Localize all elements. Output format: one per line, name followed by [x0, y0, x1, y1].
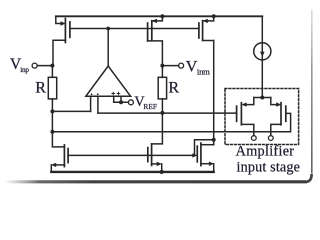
wire VREF	[114, 101, 129, 103]
junction dot M6 gate wrap	[212, 138, 216, 142]
wire bus2 to pair right gate	[52, 113, 290, 131]
junction dot VREF	[119, 100, 123, 104]
transistor M6 (bottom-right NMOS, diode-connected)	[195, 140, 215, 172]
svg-text:inp: inp	[20, 66, 29, 74]
svg-text:input stage: input stage	[237, 159, 301, 175]
terminal Vinp	[32, 63, 37, 68]
gate bus wire (M1-M2-M3 gates)	[70, 28, 199, 30]
junction dot M5 source/rail	[160, 170, 164, 174]
transistor M3 (top-right PMOS)	[199, 16, 214, 40]
transistor M5 (bottom-middle NMOS)	[148, 144, 162, 172]
wire bus1 right segment	[98, 112, 237, 114]
wire U1 input stub right	[97, 96, 99, 113]
caption Amplifier input stage	[236, 144, 300, 176]
wire Vinm to node	[162, 65, 178, 67]
power rail VDD	[56, 15, 262, 17]
wire right chain down to M5 drain	[152, 99, 163, 144]
wire left chain down	[51, 99, 53, 132]
junction dot tail node	[260, 96, 264, 100]
terminal Vinm	[179, 63, 184, 68]
junction dot bus2-left	[50, 130, 54, 134]
resistor R1	[51, 66, 53, 78]
junction dot bus1-right	[160, 111, 164, 115]
transistor Q1 (pair left PMOS)	[237, 98, 254, 136]
junction dot node G	[106, 27, 110, 31]
wire apex to gate bus	[107, 29, 109, 66]
transistor M1 (top-left PMOS)	[53, 16, 70, 65]
label Vinm	[186, 58, 210, 76]
junction dot bus1-left	[50, 109, 54, 113]
terminal Q2 drain out	[268, 136, 273, 141]
dashed box amplifier input stage	[225, 89, 299, 145]
svg-text:R: R	[168, 80, 179, 97]
arrowhead into M6 gate	[192, 153, 197, 157]
transistor M2 (top-middle PMOS, diode-connected)	[148, 16, 163, 65]
wire tail bar	[254, 97, 271, 99]
frame corner bottom-right	[306, 174, 312, 182]
wire U1 ref stubs	[114, 96, 121, 102]
op-amp U1	[86, 66, 131, 96]
resistor R2	[161, 66, 163, 78]
svg-text:R: R	[35, 80, 46, 97]
frame shadow bottom	[3, 180, 306, 183]
transistor M4 (bottom-left NMOS)	[51, 132, 68, 172]
label VREF	[134, 94, 157, 111]
terminal Q1 drain out	[251, 136, 256, 141]
wire bottom gate bus	[68, 154, 192, 156]
frame border right	[311, 10, 313, 174]
wire M3 drain down	[213, 41, 215, 145]
svg-text:Amplifier: Amplifier	[236, 144, 295, 160]
junction dot node Vinm	[160, 64, 164, 68]
ground rail (bottom)	[51, 171, 213, 173]
transistor Q2 (pair right PMOS)	[271, 98, 286, 136]
junction dot node Vinp	[50, 64, 54, 68]
wire U1 input stub left	[90, 96, 92, 111]
terminal VREF	[128, 100, 133, 105]
svg-text:REF: REF	[143, 102, 157, 111]
junction dot rail/M3	[212, 14, 216, 18]
wire Vinp to node	[37, 65, 52, 67]
wire bus1 left segment	[52, 110, 90, 112]
junction dot rail/M2	[160, 14, 164, 18]
current source I1	[254, 16, 271, 97]
label Vinp	[10, 56, 29, 74]
svg-text:inm: inm	[197, 66, 210, 76]
